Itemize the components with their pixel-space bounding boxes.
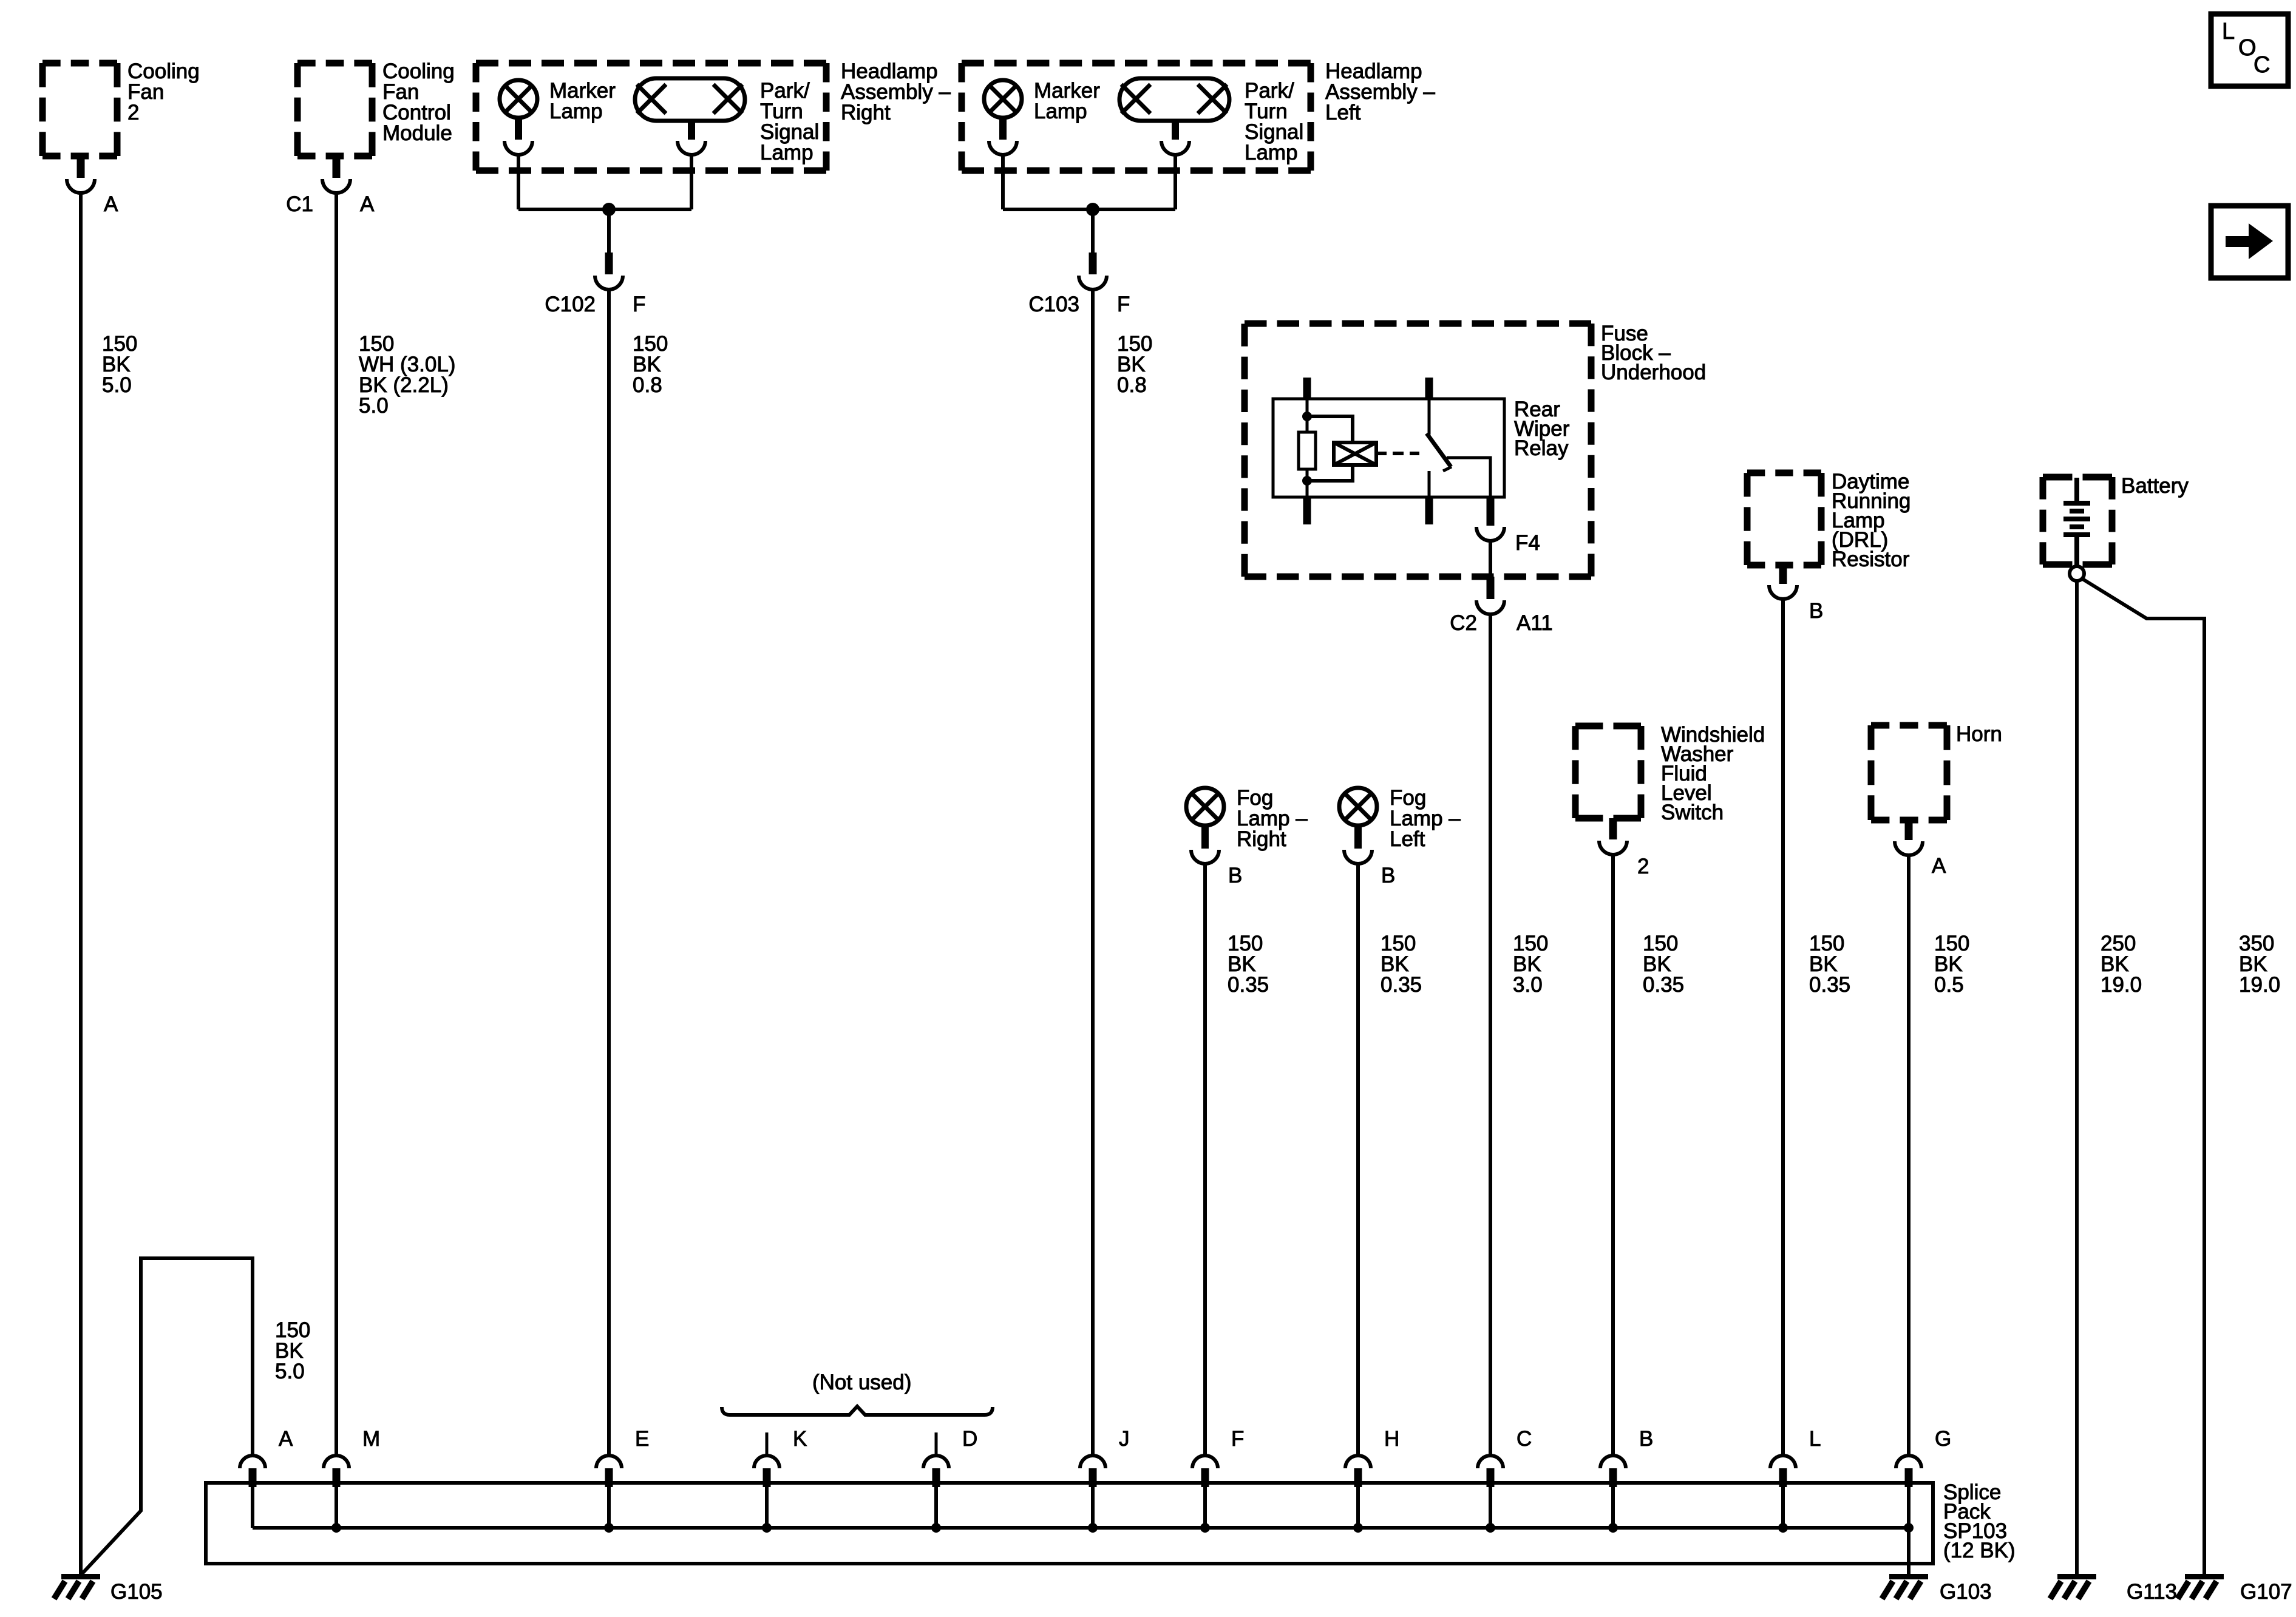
ground G103 [1882, 1574, 1992, 1604]
splice port E [596, 1427, 649, 1533]
LOC reference symbol [2211, 14, 2288, 86]
splice port F [1192, 1427, 1244, 1533]
splice port H [1345, 1427, 1399, 1533]
svg-text:A11: A11 [1517, 611, 1553, 635]
svg-text:G: G [1935, 1427, 1951, 1451]
svg-text:D: D [962, 1427, 977, 1451]
splice port D [923, 1427, 977, 1533]
battery (with dashed box) [2043, 474, 2189, 566]
wire: junction to C103 [1091, 209, 1095, 253]
splice port C [1478, 1427, 1532, 1533]
wire label 150 BK 0.5 [1934, 932, 1969, 997]
svg-text:A: A [1932, 854, 1946, 878]
wire: horn to splice port G and ground G103 [1907, 855, 1911, 1575]
svg-text:H: H [1384, 1427, 1399, 1451]
not-used stub D [935, 1432, 938, 1456]
svg-text:A: A [360, 192, 375, 216]
svg-text:(Not used): (Not used) [812, 1371, 911, 1394]
svg-text:Lamp: Lamp [1034, 100, 1087, 123]
splice port L [1770, 1427, 1821, 1533]
marker lamp connector (right) [504, 118, 532, 155]
svg-text:3.0: 3.0 [1513, 973, 1543, 997]
(Not used) brace and label [722, 1371, 993, 1415]
ground G107 [2178, 1574, 2292, 1604]
wire: DRL resistor to splice port L [1781, 598, 1785, 1456]
splice port G [1896, 1427, 1951, 1533]
svg-text:0.8: 0.8 [633, 373, 662, 397]
wire label 150 BK 0.35 (fog left) [1381, 932, 1422, 997]
wire: battery branch to ground G107 [2082, 578, 2204, 1575]
wire label 150 BK 5.0 (cooling fan wire) [102, 332, 137, 397]
svg-text:5.0: 5.0 [102, 373, 132, 397]
relay output pin F4 [1476, 497, 1540, 555]
wire: F4 to fuse block edge [1489, 540, 1492, 577]
svg-text:K: K [793, 1427, 807, 1451]
svg-text:G103: G103 [1940, 1580, 1992, 1604]
component box: Headlamp Assembly - Left [962, 59, 1435, 171]
not-used stub K [766, 1432, 769, 1456]
svg-text:Horn: Horn [1956, 722, 2002, 746]
washer switch connector pin 2 [1599, 818, 1649, 878]
svg-text:C: C [2254, 52, 2270, 78]
svg-text:Switch: Switch [1661, 801, 1724, 824]
svg-text:L: L [1809, 1427, 1821, 1451]
relay coil actuator dashed link [1376, 452, 1419, 455]
connector pin A (Cooling Fan 2) [67, 156, 118, 216]
wire: battery to ground G113 [2075, 581, 2079, 1575]
svg-text:Resistor: Resistor [1832, 547, 1910, 571]
continuation arrow symbol [2211, 206, 2288, 278]
wire label 150 BK 5.0 (splice A riser) [275, 1318, 310, 1383]
svg-text:B: B [1381, 864, 1395, 887]
svg-text:G107: G107 [2240, 1580, 2292, 1604]
splice pack SP103 box [206, 1480, 2016, 1564]
fog lamp left connector pin B [1344, 825, 1395, 887]
svg-text:19.0: 19.0 [2239, 973, 2280, 997]
park/turn signal lamp (right) [635, 78, 819, 164]
fog lamp - left [1339, 786, 1461, 851]
svg-text:19.0: 19.0 [2101, 973, 2142, 997]
wire: splice port A riser to ground G105 [81, 1258, 253, 1575]
splice port B [1600, 1427, 1653, 1533]
svg-text:Lamp: Lamp [760, 141, 813, 164]
wire label 150 BK 0.8 (right) [633, 332, 668, 397]
svg-text:Right: Right [841, 101, 891, 124]
wire label 150 BK 0.35 (washer) [1643, 932, 1684, 997]
svg-text:Battery: Battery [2121, 474, 2189, 498]
marker lamp (left) [984, 79, 1100, 123]
svg-text:Right: Right [1237, 827, 1286, 851]
svg-text:B: B [1228, 864, 1242, 887]
svg-text:0.35: 0.35 [1381, 973, 1422, 997]
relay internal junction dots [1302, 412, 1312, 486]
svg-text:F: F [1117, 293, 1130, 316]
svg-text:B: B [1809, 599, 1823, 623]
wire label 150 BK 0.35 (fog right) [1228, 932, 1269, 997]
wire: left headlamp lamps junction [1003, 154, 1175, 209]
wire: junction to C102 [607, 209, 611, 253]
component box: Daytime Running Lamp (DRL) Resistor [1747, 470, 1911, 571]
svg-text:F: F [633, 293, 645, 316]
svg-text:C102: C102 [545, 293, 596, 316]
park/turn signal lamp (left) [1119, 78, 1303, 164]
svg-text:0.35: 0.35 [1228, 973, 1269, 997]
svg-text:Underhood: Underhood [1601, 361, 1706, 384]
splice port A [240, 1427, 293, 1528]
svg-text:J: J [1119, 1427, 1130, 1451]
component box: Cooling Fan 2 [42, 59, 200, 156]
park/turn lamp connector (left) [1161, 121, 1189, 155]
wire: CFCM to splice port M [335, 192, 338, 1456]
component box: Windshield Washer Fluid Level Switch [1575, 723, 1765, 824]
relay coil resistor [1299, 399, 1316, 497]
ground G113 [2050, 1574, 2177, 1604]
wire: C103 to splice port J [1091, 289, 1095, 1456]
relay switch output wire [1447, 458, 1490, 497]
connector C2 pin A11 [1450, 577, 1552, 635]
marker lamp connector (left) [989, 118, 1017, 155]
wire: washer switch to splice port B [1611, 854, 1615, 1456]
rear wiper relay outline [1273, 398, 1570, 497]
svg-text:0.35: 0.35 [1643, 973, 1684, 997]
svg-text:0.8: 0.8 [1117, 373, 1147, 397]
svg-text:A: A [279, 1427, 293, 1451]
svg-text:C: C [1517, 1427, 1532, 1451]
svg-text:F4: F4 [1515, 531, 1540, 555]
svg-text:A: A [104, 192, 118, 216]
DRL resistor connector pin B [1769, 565, 1823, 623]
svg-text:Left: Left [1325, 101, 1361, 124]
svg-text:5.0: 5.0 [275, 1360, 305, 1383]
marker lamp (right) [500, 79, 616, 123]
connector C1 pin A (Cooling Fan Control Module) [286, 156, 375, 216]
svg-text:C2: C2 [1450, 611, 1477, 635]
wire: rear wiper relay to splice port C [1489, 614, 1492, 1456]
svg-text:Module: Module [382, 121, 452, 145]
component box: Headlamp Assembly - Right [476, 59, 951, 171]
svg-text:Lamp: Lamp [549, 100, 603, 123]
svg-text:Relay: Relay [1514, 436, 1569, 460]
wire label 150 BK 0.8 (left) [1117, 332, 1152, 397]
splice port M [324, 1427, 380, 1533]
svg-text:0.35: 0.35 [1809, 973, 1850, 997]
svg-text:C103: C103 [1028, 293, 1079, 316]
splice port K [754, 1427, 807, 1533]
park/turn lamp connector (right) [678, 121, 705, 155]
junction dot (right headlamp) [602, 203, 616, 216]
component box: Horn [1871, 722, 2002, 820]
component box: Fuse Block - Underhood [1245, 322, 1706, 577]
relay switch [1427, 399, 1452, 497]
svg-text:5.0: 5.0 [359, 394, 389, 418]
relay pin stubs [1303, 378, 1433, 524]
svg-text:Lamp: Lamp [1245, 141, 1298, 164]
fog lamp right connector pin B [1191, 825, 1242, 887]
splice port J [1080, 1427, 1130, 1533]
svg-text:F: F [1231, 1427, 1244, 1451]
svg-text:2: 2 [1637, 855, 1649, 878]
svg-text:G113: G113 [2127, 1580, 2177, 1604]
svg-text:E: E [635, 1427, 649, 1451]
svg-text:M: M [362, 1427, 380, 1451]
svg-text:2: 2 [127, 101, 139, 124]
relay coil [1307, 416, 1376, 481]
junction dot (left headlamp) [1086, 203, 1099, 216]
wire label 150 WH (3.0L) BK (2.2L) 5.0 [359, 332, 455, 418]
component box: Cooling Fan Control Module [297, 59, 455, 156]
ground G105 [54, 1574, 163, 1604]
wire label 150 BK 0.35 (DRL) [1809, 932, 1850, 997]
svg-text:Left: Left [1390, 827, 1425, 851]
wire label 250 BK 19.0 [2101, 932, 2142, 997]
fog lamp - right [1186, 786, 1308, 851]
connector C103 pin F [1028, 253, 1130, 316]
horn connector pin A [1895, 820, 1946, 878]
battery terminal circle [2070, 566, 2084, 581]
wire label 350 BK 19.0 [2239, 932, 2280, 997]
wire label 150 BK 3.0 [1513, 932, 1548, 997]
wire: fog lamp left to splice port H [1356, 863, 1360, 1456]
wire: C102 to splice port E [607, 289, 611, 1456]
svg-text:G105: G105 [110, 1580, 163, 1604]
svg-text:0.5: 0.5 [1934, 973, 1964, 997]
wire: fog lamp right to splice port F [1203, 863, 1207, 1456]
connector C102 pin F [545, 253, 645, 316]
splice pack bus wire [253, 1526, 1909, 1530]
svg-text:B: B [1639, 1427, 1653, 1451]
wire: right headlamp lamps junction [518, 154, 691, 209]
wire: Cooling Fan 2 ground wire to G105 [79, 192, 83, 1575]
svg-text:L: L [2222, 19, 2235, 44]
svg-text:(12 BK): (12 BK) [1943, 1539, 2016, 1562]
svg-text:C1: C1 [286, 192, 313, 216]
